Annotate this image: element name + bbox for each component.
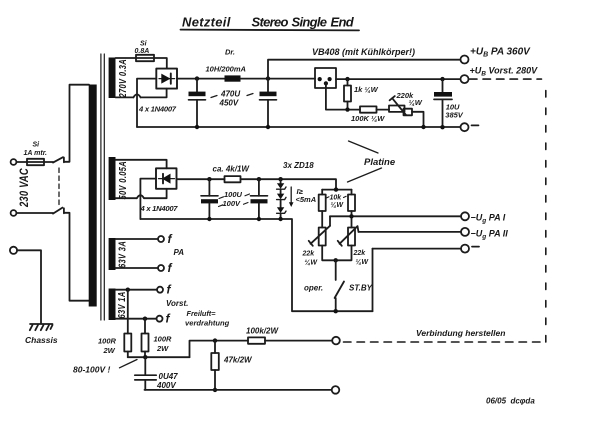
label +UB Vorst. 280V xyxy=(470,66,539,78)
bridge rectifier GL1 xyxy=(156,69,177,89)
svg-text:4 x 1N4007: 4 x 1N4007 xyxy=(138,105,177,114)
capacitor C3 10U 385V xyxy=(440,77,444,81)
wire winding4 bottom to f xyxy=(116,318,157,320)
wire winding4 top to f xyxy=(116,289,157,291)
resistor 100K 1/4W xyxy=(360,106,377,112)
svg-text:10k: 10k xyxy=(330,195,343,202)
winding 63V 1A xyxy=(109,289,116,321)
winding 50V 0.05A xyxy=(109,157,116,200)
switch link dashed xyxy=(58,168,60,206)
svg-text:¼W: ¼W xyxy=(331,202,345,209)
fuse Si 0.8A xyxy=(136,55,154,61)
svg-text:Freiluft=: Freiluft= xyxy=(187,309,217,318)
svg-text:+UB Vorst. 280V: +UB Vorst. 280V xyxy=(470,66,539,78)
svg-text:4 x 1N4007: 4 x 1N4007 xyxy=(140,204,179,213)
svg-text:1k ¼W: 1k ¼W xyxy=(354,85,379,94)
label VB408 (mit Kuehlkoerper!) xyxy=(312,47,415,57)
terminal +UB Vorst. 280V xyxy=(461,75,469,83)
label 470U 450V xyxy=(219,90,241,108)
svg-text:verdrahtung: verdrahtung xyxy=(185,319,230,328)
svg-text:100V: 100V xyxy=(223,199,242,208)
svg-text:06/05 dcφda: 06/05 dcφda xyxy=(486,397,535,406)
svg-text:¼W: ¼W xyxy=(409,98,423,107)
winding 270V 0.3A xyxy=(109,58,116,99)
resistor 47k/2W xyxy=(214,341,216,353)
resistor 100R 2W right xyxy=(143,317,147,321)
svg-text:Platine: Platine xyxy=(364,157,396,168)
svg-text:<5mA: <5mA xyxy=(296,195,317,204)
wire switch to riser xyxy=(64,85,89,162)
title Netzteil Stereo Single End xyxy=(182,15,355,30)
resistor 100k/2W xyxy=(248,337,265,343)
svg-text:450V: 450V xyxy=(219,99,239,108)
label 4 x 1N4007 second xyxy=(140,204,179,213)
zener stack 3x ZD18 xyxy=(278,177,282,181)
svg-text:f: f xyxy=(168,232,173,246)
minus Ug feed line xyxy=(177,178,225,180)
svg-text:100R: 100R xyxy=(154,335,173,344)
bottom rail xyxy=(145,389,332,391)
wire 360V branch xyxy=(268,60,460,79)
svg-text:ST.BY: ST.BY xyxy=(349,284,373,293)
choke Dr. 10H/200mA xyxy=(225,75,241,81)
trimmer 22k left xyxy=(319,228,326,246)
terminal +UB PA 360V xyxy=(461,56,469,64)
label 10k 1/4W xyxy=(330,195,345,210)
label 3x ZD18 xyxy=(283,161,314,170)
svg-text:Dr.: Dr. xyxy=(225,48,235,57)
svg-text:3x ZD18: 3x ZD18 xyxy=(283,161,314,170)
wire switch to primary bottom xyxy=(64,213,89,301)
svg-text:2W: 2W xyxy=(103,346,116,355)
output line minus bias xyxy=(373,248,461,250)
svg-text:47k/2W: 47k/2W xyxy=(223,356,253,365)
svg-text:−Ug PA II: −Ug PA II xyxy=(471,228,509,240)
label 06/05 signature xyxy=(486,397,535,406)
svg-text:Si: Si xyxy=(33,142,41,149)
wire to ground xyxy=(17,250,41,323)
svg-text:Vorst.: Vorst. xyxy=(166,299,188,308)
svg-text:100R: 100R xyxy=(98,337,117,346)
svg-text:oper.: oper. xyxy=(304,284,323,293)
wire up to 100k line xyxy=(190,341,249,358)
switch S1b lever xyxy=(53,208,63,214)
current arrow I>= <5mA xyxy=(290,187,292,203)
resistor 10k left xyxy=(321,190,323,195)
wire join 100R bottoms xyxy=(128,356,190,358)
chassis terminal xyxy=(10,247,17,254)
wire winding2 bottom with hump xyxy=(116,197,137,199)
label Verbindung herstellen xyxy=(416,328,505,338)
svg-text:1A mtr.: 1A mtr. xyxy=(24,150,48,157)
svg-text:63V 3A: 63V 3A xyxy=(117,241,128,268)
label 22k 1/4W left xyxy=(302,251,319,267)
resistor 1k 1/4W xyxy=(345,77,349,81)
svg-text:Verbindung herstellen: Verbindung herstellen xyxy=(416,328,505,338)
label Freiluft= verdrahtung xyxy=(185,309,230,328)
resistor ca. 4k/1W xyxy=(225,176,241,182)
svg-text:VB408 (mit Kühlkörper!): VB408 (mit Kühlkörper!) xyxy=(312,47,415,57)
svg-text:0U47: 0U47 xyxy=(159,372,179,381)
capacitor C2 470U xyxy=(266,76,270,80)
capacitor C4 100U xyxy=(207,177,211,181)
label +UB PA 360V xyxy=(470,47,531,59)
wire VB408 output xyxy=(336,78,460,80)
wire bridge1 plus output xyxy=(177,78,225,80)
capacitor C1 470U xyxy=(195,76,199,80)
common rail section2 xyxy=(140,219,372,311)
svg-text:100k/2W: 100k/2W xyxy=(246,327,279,336)
svg-text:100U: 100U xyxy=(224,190,243,199)
trimmer 220k 1/4W xyxy=(389,106,405,112)
wire terminal to switch xyxy=(16,212,53,214)
minus rail section1 xyxy=(137,126,460,128)
svg-text:22k: 22k xyxy=(302,251,316,258)
label Chassis xyxy=(25,335,58,345)
svg-text:80-100V !: 80-100V ! xyxy=(73,365,110,375)
svg-text:¼W: ¼W xyxy=(356,259,370,266)
label PA xyxy=(174,248,185,257)
svg-text:50V 0.05A: 50V 0.05A xyxy=(117,161,128,200)
output line -Ug PA II xyxy=(359,231,461,233)
capacitor C5 100U xyxy=(257,177,261,181)
wire VB408 adj pin xyxy=(326,83,360,109)
resistor 10k right xyxy=(351,190,353,195)
svg-text:−Ug PA I: −Ug PA I xyxy=(471,213,506,225)
label 230 VAC xyxy=(18,168,31,208)
wire top cross xyxy=(322,189,351,191)
label 22k 1/4W right xyxy=(353,250,370,266)
switch S1a lever xyxy=(53,157,63,162)
wire choke to VB408 xyxy=(241,78,316,80)
terminal minus section1 xyxy=(461,123,469,131)
wire trimmer bottoms join xyxy=(322,246,351,261)
svg-text:270V 0.3A: 270V 0.3A xyxy=(117,59,128,98)
svg-text:10H/200mA: 10H/200mA xyxy=(206,65,246,74)
wire terminal to fuse xyxy=(16,161,27,163)
capacitor 0U47 400V xyxy=(144,357,146,375)
ground chassis symbol xyxy=(30,323,53,325)
svg-text:400V: 400V xyxy=(156,381,176,390)
label Si 0.8A xyxy=(135,41,150,56)
svg-text:470U: 470U xyxy=(220,90,240,99)
svg-text:230 VAC: 230 VAC xyxy=(18,168,31,208)
wire winding3 top to f xyxy=(116,238,158,240)
label Vorst. xyxy=(166,299,188,308)
wire winding2 top to bridge2 xyxy=(116,160,167,169)
svg-text:63V 1A: 63V 1A xyxy=(116,291,127,318)
wire winding3 bottom to f xyxy=(116,267,158,269)
svg-text:f: f xyxy=(166,312,171,326)
svg-text:100K ¼W: 100K ¼W xyxy=(351,114,385,123)
terminal bias out upper xyxy=(332,337,340,345)
wire bridge2 plus down xyxy=(140,179,156,219)
svg-text:ca. 4k/1W: ca. 4k/1W xyxy=(213,165,251,174)
trimmer 22k right xyxy=(348,228,355,246)
wire bridge1 minus down xyxy=(137,79,156,127)
fuse Si 1A mtr. xyxy=(27,159,44,165)
label Platine with leaders xyxy=(364,157,396,168)
wire fuse to bridge1 top xyxy=(154,58,167,69)
svg-text:f: f xyxy=(167,283,172,297)
svg-text:+UB PA 360V: +UB PA 360V xyxy=(470,47,531,59)
svg-text:22k: 22k xyxy=(353,250,367,257)
transformer T1 primary winding xyxy=(89,85,97,307)
svg-text:f: f xyxy=(168,261,173,275)
svg-text:¼W: ¼W xyxy=(305,260,319,267)
regulator VB408 xyxy=(315,68,336,88)
switch oper/ST.BY xyxy=(335,260,337,280)
dashed connection line xyxy=(344,341,546,343)
resistor 100R 2W left xyxy=(126,288,130,292)
svg-text:Si: Si xyxy=(140,41,148,48)
output line -Ug PA I xyxy=(330,215,461,217)
svg-text:0.8A: 0.8A xyxy=(135,48,150,55)
terminal bias out lower xyxy=(332,386,340,394)
transformer core xyxy=(101,54,104,320)
mains terminal upper xyxy=(11,159,17,165)
label Si 1A mtr. xyxy=(24,142,48,158)
wire winding1 top to fuse xyxy=(116,57,137,59)
label 80-100V ! xyxy=(73,365,110,375)
wire trimmer to minus rail xyxy=(412,112,424,127)
bridge rectifier GL2 xyxy=(156,168,177,189)
svg-text:2W: 2W xyxy=(156,344,169,353)
mains terminal lower xyxy=(11,210,17,216)
label minus xyxy=(472,124,479,126)
svg-text:PA: PA xyxy=(174,248,185,257)
svg-text:NetzteilStereoSingleEnd: NetzteilStereoSingleEnd xyxy=(182,15,355,30)
label 100U 100V xyxy=(223,190,243,208)
svg-text:385V: 385V xyxy=(445,111,464,120)
svg-text:Chassis: Chassis xyxy=(25,335,58,345)
label 4 x 1N4007 xyxy=(138,105,177,114)
winding 63V 3A xyxy=(109,238,116,270)
wire winding1 bottom to bridge1 with hump xyxy=(116,96,134,98)
